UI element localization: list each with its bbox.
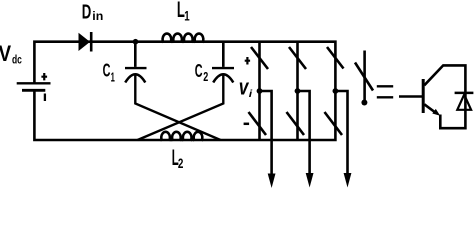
svg-text:V: V (0, 41, 11, 66)
svg-text:i: i (249, 88, 254, 100)
svg-text:2: 2 (203, 69, 208, 84)
svg-text:D: D (82, 2, 92, 24)
svg-text:1: 1 (184, 8, 190, 24)
svg-text:dc: dc (12, 53, 22, 67)
svg-text:C: C (195, 60, 203, 81)
svg-text:2: 2 (178, 155, 184, 171)
svg-text:C: C (103, 60, 111, 81)
svg-text:1: 1 (111, 69, 115, 84)
svg-text:in: in (92, 9, 103, 23)
